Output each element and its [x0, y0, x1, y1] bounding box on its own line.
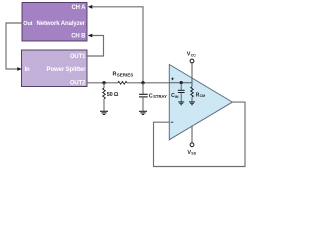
arrow into CH A — [88, 5, 93, 9]
wire C_STRAY stem — [142, 83, 144, 95]
svg-text:IN: IN — [175, 95, 179, 99]
wire feedback loop — [154, 102, 246, 166]
svg-text:CH A: CH A — [71, 5, 86, 11]
wire VCC stem — [191, 63, 193, 87]
ground C_IN — [178, 102, 184, 105]
wire C_STRAY to ground — [142, 97, 144, 111]
node junction 50ohm — [102, 81, 105, 84]
wire C_IN stem — [180, 83, 182, 91]
ground R_CM — [189, 102, 195, 105]
svg-text:Power Splitter: Power Splitter — [47, 67, 87, 73]
svg-text:In: In — [25, 67, 30, 73]
wire 50ohm stem — [103, 83, 105, 88]
wire node to CH A — [92, 7, 143, 83]
svg-text:Out: Out — [23, 21, 32, 27]
svg-text:Network Analyzer: Network Analyzer — [36, 21, 85, 27]
capacitor C_IN — [178, 90, 185, 92]
svg-text:CC: CC — [191, 53, 197, 57]
plus input sign — [171, 78, 174, 81]
resistor R_SERIES — [118, 81, 127, 84]
terminal VCC — [190, 59, 194, 63]
network analyzer box — [22, 3, 87, 42]
wire Out to In — [6, 23, 22, 69]
svg-text:SS: SS — [191, 152, 196, 156]
svg-text:CM: CM — [200, 94, 206, 98]
wire OUT1 to CH B — [87, 36, 104, 57]
wire inside op-amp to R_CM — [169, 82, 192, 84]
wire 50ohm to ground — [103, 99, 105, 111]
svg-text:OUT2: OUT2 — [70, 81, 86, 87]
arrow into CH B — [88, 34, 93, 38]
wire OUT2 to R_SERIES — [87, 82, 118, 84]
svg-text:CH B: CH B — [71, 34, 86, 40]
svg-text:C: C — [149, 93, 153, 99]
terminal VSS — [190, 143, 194, 147]
resistor 50 ohm — [103, 88, 106, 99]
ground C_STRAY — [139, 111, 147, 114]
resistor R_CM — [191, 87, 194, 97]
svg-text:OUT1: OUT1 — [70, 54, 86, 60]
wire C_IN to ground — [180, 93, 182, 102]
op-amp U1 — [169, 65, 232, 140]
svg-text:SERIES: SERIES — [117, 72, 134, 77]
wire R_CM to ground — [191, 97, 193, 102]
power splitter box — [22, 50, 88, 87]
svg-text:STRAY: STRAY — [153, 94, 167, 99]
node junction C_STRAY — [141, 81, 144, 84]
node junction C_IN — [180, 81, 183, 84]
svg-text:50 Ω: 50 Ω — [107, 92, 119, 98]
minus input sign — [171, 121, 174, 123]
wire VSS stem — [191, 126, 193, 143]
capacitor C_STRAY — [139, 94, 148, 97]
ground 50ohm — [100, 111, 108, 114]
wire R_SERIES to op-amp input — [127, 82, 169, 84]
arrow into In — [17, 67, 22, 71]
